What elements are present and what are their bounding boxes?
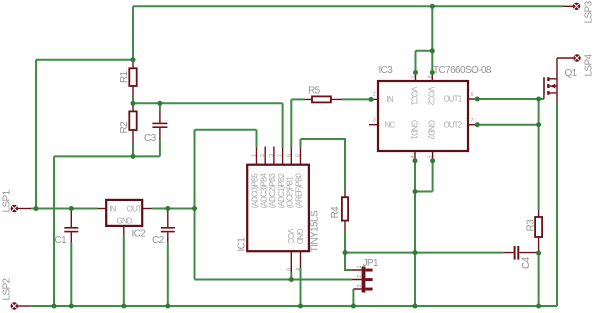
svg-text:3: 3	[357, 284, 363, 287]
svg-text:5: 5	[296, 154, 302, 157]
wire to R3	[538, 99, 540, 210]
junction bottom rail IC3 GND	[413, 304, 418, 309]
wire y59.7	[36, 59, 133, 61]
junction bottom rail IC2 GND	[121, 304, 126, 309]
svg-text:Q1: Q1	[565, 68, 578, 79]
svg-text:IN: IN	[109, 205, 115, 214]
wire Q1 source drop	[556, 103, 558, 307]
capacitor C4	[504, 246, 538, 260]
svg-text:8: 8	[286, 268, 292, 271]
wire C2 bottom	[167, 243, 169, 307]
svg-text:7: 7	[471, 118, 474, 124]
svg-text:(OCP)PB1: (OCP)PB1	[286, 177, 295, 209]
svg-text:R4: R4	[330, 206, 341, 219]
svg-text:C3: C3	[144, 133, 157, 144]
junction R1 top / top rail drop	[131, 57, 136, 62]
junction top rail / IC3 VCC drop	[430, 4, 435, 9]
svg-text:OUT1: OUT1	[444, 95, 462, 104]
wire top-left drop	[132, 6, 134, 59]
svg-text:GND: GND	[295, 229, 304, 245]
junction IC3 pin5 connect	[430, 158, 435, 163]
svg-text:1: 1	[410, 75, 416, 78]
svg-text:GND1: GND1	[410, 120, 419, 139]
solder pad LSP3	[563, 3, 580, 10]
svg-text:6: 6	[286, 154, 292, 157]
wire pin5 up	[300, 139, 302, 148]
svg-text:R2: R2	[119, 121, 130, 134]
svg-text:(ADC0)PB5: (ADC0)PB5	[251, 173, 260, 209]
junction bottom rail C2	[165, 304, 170, 309]
wire OUT2	[477, 124, 538, 126]
svg-text:IC1: IC1	[237, 237, 248, 252]
wire x54 vertical	[53, 156, 55, 306]
IC3 pin 2 IN stub	[371, 98, 378, 100]
IC3 pin 4 stub	[414, 151, 416, 161]
IC1 pin 7 stub	[282, 148, 284, 165]
wire C3 bottom	[159, 140, 161, 156]
IC3 pin 5 stub	[432, 151, 434, 161]
svg-text:R3: R3	[526, 219, 537, 232]
svg-text:VCC1: VCC1	[410, 87, 419, 105]
wire loop vertical x194.5	[194, 130, 196, 280]
wire pin7 drop	[282, 103, 284, 147]
wire bottom rail	[31, 305, 557, 307]
svg-text:4: 4	[410, 155, 416, 158]
svg-text:6: 6	[471, 92, 474, 98]
wire R5 right	[342, 98, 372, 100]
jumper JP1	[352, 267, 373, 293]
junction IC3 GND join	[413, 189, 418, 194]
IC1 pin 5 stub	[300, 148, 302, 165]
wire y156.4	[54, 155, 160, 157]
IC1 pin 4 stub	[300, 251, 302, 268]
IC1 pin 6 stub	[290, 148, 292, 165]
wire y103.3 divider to pin7	[133, 102, 283, 104]
junction R1-R2 divider tap	[131, 101, 136, 106]
svg-text:GND: GND	[117, 217, 133, 226]
svg-text:7: 7	[278, 154, 284, 157]
svg-text:R5: R5	[308, 86, 321, 97]
svg-text:3: 3	[269, 154, 275, 157]
resistor R1	[129, 61, 136, 95]
svg-text:TINY15LS: TINY15LS	[309, 210, 320, 252]
capacitor C1	[64, 211, 78, 243]
wire pin4 gnd drop	[300, 268, 302, 306]
wire C3 top	[159, 103, 161, 111]
IC1 box TINY15LS	[247, 165, 309, 252]
junction OUT2 / R3 line	[536, 122, 541, 127]
resistor R4	[342, 191, 348, 230]
svg-text:5: 5	[427, 155, 433, 158]
svg-text:(AREF)PB0: (AREF)PB0	[295, 173, 304, 209]
IC3 pin 6 OUT1 stub	[468, 98, 477, 100]
wire C1 bottom	[70, 243, 72, 307]
IC3 pin 3 NC stub	[369, 124, 378, 126]
solder pad LSP2	[11, 302, 32, 309]
junction R4 bottom / JP1 pin1	[343, 250, 348, 255]
svg-text:LSP3: LSP3	[584, 0, 595, 23]
wire under R3	[538, 253, 540, 306]
IC3 pin 8 stub	[431, 73, 433, 82]
wire pin6 up	[290, 99, 292, 147]
junction IC3 VCC U-bend	[430, 48, 435, 53]
wire pin8 link	[290, 272, 292, 280]
svg-text:IC2: IC2	[132, 229, 147, 240]
junction bottom rail IC1 pin4	[298, 304, 303, 309]
junction IC3 pin2 IN connect	[369, 97, 374, 102]
wire OUT1 to gate	[477, 98, 544, 100]
resistor R2	[129, 105, 136, 144]
svg-text:VCC2: VCC2	[426, 87, 435, 105]
svg-text:(ADC2)PB3: (ADC2)PB3	[268, 174, 277, 209]
wire R5 left	[291, 98, 304, 100]
IC1 pin 3 stub	[273, 147, 275, 165]
junction left branch at LSP1 rail	[34, 206, 39, 211]
junction C2 top	[165, 206, 170, 211]
junction bottom rail x54	[52, 304, 57, 309]
wire under R2	[132, 144, 134, 157]
junction bottom rail JP1 pin3	[351, 304, 356, 309]
junction IC3 pin6 OUT1 connect	[475, 97, 480, 102]
IC2 pin OUT stub	[142, 208, 151, 210]
wire under R4	[344, 230, 346, 253]
svg-text:TC7660SO-08: TC7660SO-08	[433, 65, 492, 76]
junction bottom rail R3	[536, 304, 541, 309]
svg-text:C1: C1	[55, 235, 68, 246]
svg-text:LSP4: LSP4	[584, 53, 595, 76]
svg-text:OUT: OUT	[127, 205, 142, 214]
junction bottom rail C1	[69, 304, 74, 309]
wire pin5 to R4	[301, 139, 346, 191]
svg-text:IN: IN	[387, 95, 393, 104]
svg-text:3: 3	[373, 118, 376, 124]
svg-text:LSP2: LSP2	[2, 277, 13, 300]
IC3 pin 7 OUT2 stub	[468, 124, 477, 126]
junction C4 / R3 bottom	[536, 251, 541, 256]
IC3 pin 1 stub	[415, 73, 417, 82]
wire IC2 out	[152, 208, 195, 210]
svg-text:LSP1: LSP1	[2, 189, 13, 212]
svg-text:GND2: GND2	[426, 120, 435, 139]
wire loop top to pin1	[195, 129, 257, 131]
wire IC3 vcc drop	[431, 6, 433, 51]
op-amp IC2 regulator box	[106, 200, 142, 226]
svg-text:1: 1	[252, 154, 258, 157]
IC1 pin 1 stub	[256, 148, 258, 165]
svg-text:4: 4	[296, 268, 302, 271]
svg-text:2: 2	[260, 154, 266, 157]
junction IC1 pin8 VCC	[289, 277, 294, 282]
wire y252.6	[345, 252, 504, 254]
svg-text:OUT2: OUT2	[444, 121, 462, 130]
wire left vertical x36	[35, 60, 37, 209]
solder pad LSP4	[557, 54, 581, 61]
junction IC3 pin4 connect	[413, 158, 418, 163]
junction R2 bottom / C3 net	[131, 154, 136, 159]
svg-text:1: 1	[357, 265, 363, 268]
IC1 pin 8 stub	[290, 251, 292, 272]
wire JP1 pin3 link	[352, 289, 354, 306]
wire y279.5 vcc	[195, 279, 352, 281]
IC2 pin GND stub	[123, 226, 125, 235]
svg-text:JP1: JP1	[363, 258, 379, 269]
resistor R5	[305, 96, 342, 102]
junction C1 top	[69, 206, 74, 211]
wire IC3 vcc U	[416, 51, 433, 73]
svg-text:IC3: IC3	[379, 65, 394, 76]
svg-text:(ADC1)PB2: (ADC1)PB2	[277, 174, 286, 209]
wire top rail	[133, 5, 563, 7]
junction IC3 pin1 connect	[413, 70, 418, 75]
solder pad LSP1	[11, 205, 32, 212]
capacitor C3	[152, 111, 167, 140]
IC2 pin IN stub	[97, 208, 106, 210]
junction IC3 pin7 OUT2 connect	[475, 122, 480, 127]
junction IC2 OUT / VCC loop	[192, 206, 197, 211]
svg-text:2: 2	[373, 92, 376, 98]
junction C3 top	[157, 101, 162, 106]
IC1 pin 2 stub	[264, 147, 266, 165]
capacitor C2	[161, 211, 175, 243]
junction OUT1 / R3 branch	[536, 97, 541, 102]
svg-text:NC: NC	[385, 121, 396, 130]
resistor R3	[535, 210, 542, 253]
junction IC3 pin8 connect	[430, 70, 435, 75]
svg-text:VCC: VCC	[286, 229, 295, 244]
svg-text:R1: R1	[119, 70, 130, 83]
svg-text:C2: C2	[152, 235, 165, 246]
svg-text:8: 8	[427, 75, 433, 78]
junction GND line / mid wire	[413, 250, 418, 255]
wire LSP1 rail	[31, 208, 97, 210]
IC3 box TC7660	[378, 81, 468, 151]
svg-text:2: 2	[357, 275, 363, 278]
svg-text:C4: C4	[521, 256, 532, 269]
svg-text:(ADC3)PB4: (ADC3)PB4	[259, 173, 268, 209]
wire pin1 drop	[256, 130, 258, 148]
wire under R1	[132, 95, 134, 103]
transistor Q1 MOSFET	[543, 58, 557, 103]
wire JP1 pin1 link	[345, 253, 352, 270]
wire IC3 gnd join	[415, 161, 433, 306]
wire IC2 gnd	[123, 235, 125, 306]
